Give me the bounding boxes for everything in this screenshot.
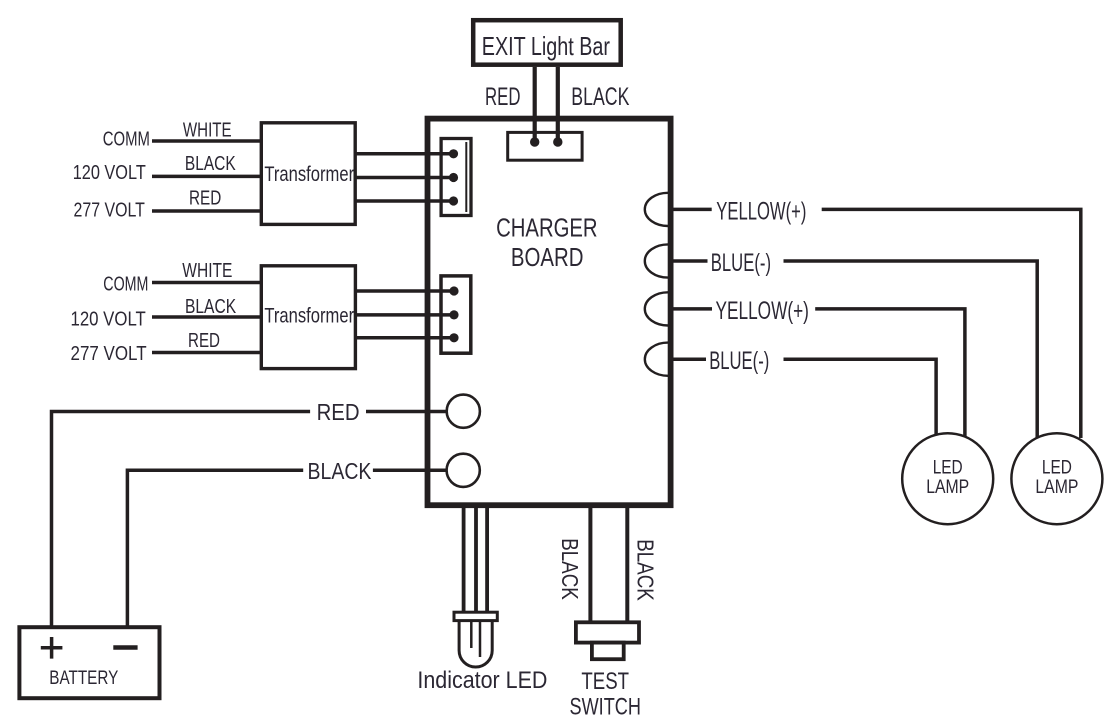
svg-text:Indicator LED: Indicator LED bbox=[417, 667, 547, 694]
svg-text:YELLOW(+): YELLOW(+) bbox=[716, 297, 809, 325]
svg-text:RED: RED bbox=[485, 83, 521, 111]
svg-text:EXIT Light Bar: EXIT Light Bar bbox=[482, 31, 610, 61]
svg-text:Transformer: Transformer bbox=[264, 304, 354, 327]
svg-text:120 VOLT: 120 VOLT bbox=[71, 308, 146, 330]
svg-text:RED: RED bbox=[188, 330, 220, 352]
svg-text:RED: RED bbox=[317, 399, 360, 425]
svg-text:LAMP: LAMP bbox=[1035, 477, 1078, 498]
svg-text:COMM: COMM bbox=[103, 274, 148, 296]
svg-text:BLUE(-): BLUE(-) bbox=[709, 347, 769, 375]
svg-text:BLACK: BLACK bbox=[185, 296, 237, 318]
svg-text:LED: LED bbox=[933, 458, 963, 479]
svg-text:Transformer: Transformer bbox=[264, 163, 354, 186]
svg-text:YELLOW(+): YELLOW(+) bbox=[716, 197, 806, 225]
svg-text:BLACK: BLACK bbox=[557, 538, 583, 600]
svg-text:LAMP: LAMP bbox=[926, 477, 969, 498]
svg-text:BOARD: BOARD bbox=[511, 242, 584, 272]
svg-text:WHITE: WHITE bbox=[183, 119, 232, 141]
svg-text:LED: LED bbox=[1042, 458, 1072, 479]
svg-text:BLACK: BLACK bbox=[633, 539, 659, 601]
svg-text:277 VOLT: 277 VOLT bbox=[71, 343, 147, 365]
svg-text:BLACK: BLACK bbox=[308, 458, 372, 484]
svg-text:BLACK: BLACK bbox=[571, 83, 629, 111]
svg-text:COMM: COMM bbox=[103, 128, 150, 150]
svg-text:BLACK: BLACK bbox=[185, 153, 236, 175]
svg-text:TEST: TEST bbox=[581, 668, 629, 695]
svg-text:CHARGER: CHARGER bbox=[496, 213, 597, 243]
svg-text:BLUE(-): BLUE(-) bbox=[711, 249, 771, 277]
svg-text:SWITCH: SWITCH bbox=[570, 694, 641, 721]
svg-text:277 VOLT: 277 VOLT bbox=[74, 199, 145, 221]
svg-text:RED: RED bbox=[189, 187, 221, 209]
svg-text:WHITE: WHITE bbox=[182, 260, 232, 282]
svg-text:120 VOLT: 120 VOLT bbox=[73, 162, 146, 184]
svg-text:BATTERY: BATTERY bbox=[49, 668, 118, 689]
